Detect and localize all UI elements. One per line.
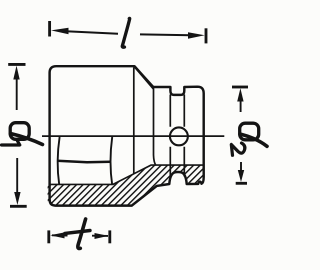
socket body: nut-end top edge (redraw over chamfer gap) xyxy=(134,66,153,87)
hex cavity: left corner curve xyxy=(58,137,60,185)
dimension d2: dimension line xyxy=(232,87,248,183)
dimension d2: top terminator bar xyxy=(232,86,248,89)
dimension t: right terminator bar xyxy=(108,230,111,243)
section centre line (waist) xyxy=(42,135,224,137)
dimension d1: label d1 (rotated) xyxy=(2,123,43,145)
dimension d1: bottom terminator bar xyxy=(10,205,27,208)
dimension d2: label d2 (rotated) xyxy=(231,123,267,155)
hex cavity: right corner curve xyxy=(111,137,113,185)
dimension t: left terminator bar xyxy=(47,230,50,243)
shoulder contour line xyxy=(133,68,135,175)
dimension l: left terminator bar xyxy=(48,21,51,37)
dimension t: dimension line xyxy=(49,230,110,243)
dimension t: right arrowhead xyxy=(95,233,109,239)
dimension l: left arrowhead xyxy=(51,28,69,35)
groove right edge line xyxy=(183,95,185,177)
hex cavity: far wall edge line xyxy=(57,161,110,163)
section inner boundary line xyxy=(50,165,203,184)
pin hole circle xyxy=(170,127,188,145)
groove left edge line xyxy=(169,95,171,177)
dimension t: label t xyxy=(65,219,90,248)
dimension d2: bottom terminator bar xyxy=(236,182,247,185)
dimension t: left arrowhead xyxy=(50,232,64,238)
dimension l: label l xyxy=(122,18,129,47)
dimension d1: dimension line xyxy=(8,64,27,206)
dimension d2: down arrowhead xyxy=(238,170,244,182)
socket body: outer outline (upper view + section profile) xyxy=(50,66,204,205)
dimension l: right arrowhead xyxy=(188,32,205,39)
nut-end shoulder contour line xyxy=(154,89,156,165)
dimension d1: up arrowhead xyxy=(13,66,19,80)
socket body: hatched section band xyxy=(48,165,204,206)
dimension d2: up arrowhead xyxy=(237,88,243,101)
dimension d1: down arrowhead xyxy=(14,192,20,205)
dimension d1: top terminator bar xyxy=(8,63,25,66)
dimension l: dimension line xyxy=(50,21,206,43)
dimension l: right terminator bar xyxy=(205,28,208,43)
